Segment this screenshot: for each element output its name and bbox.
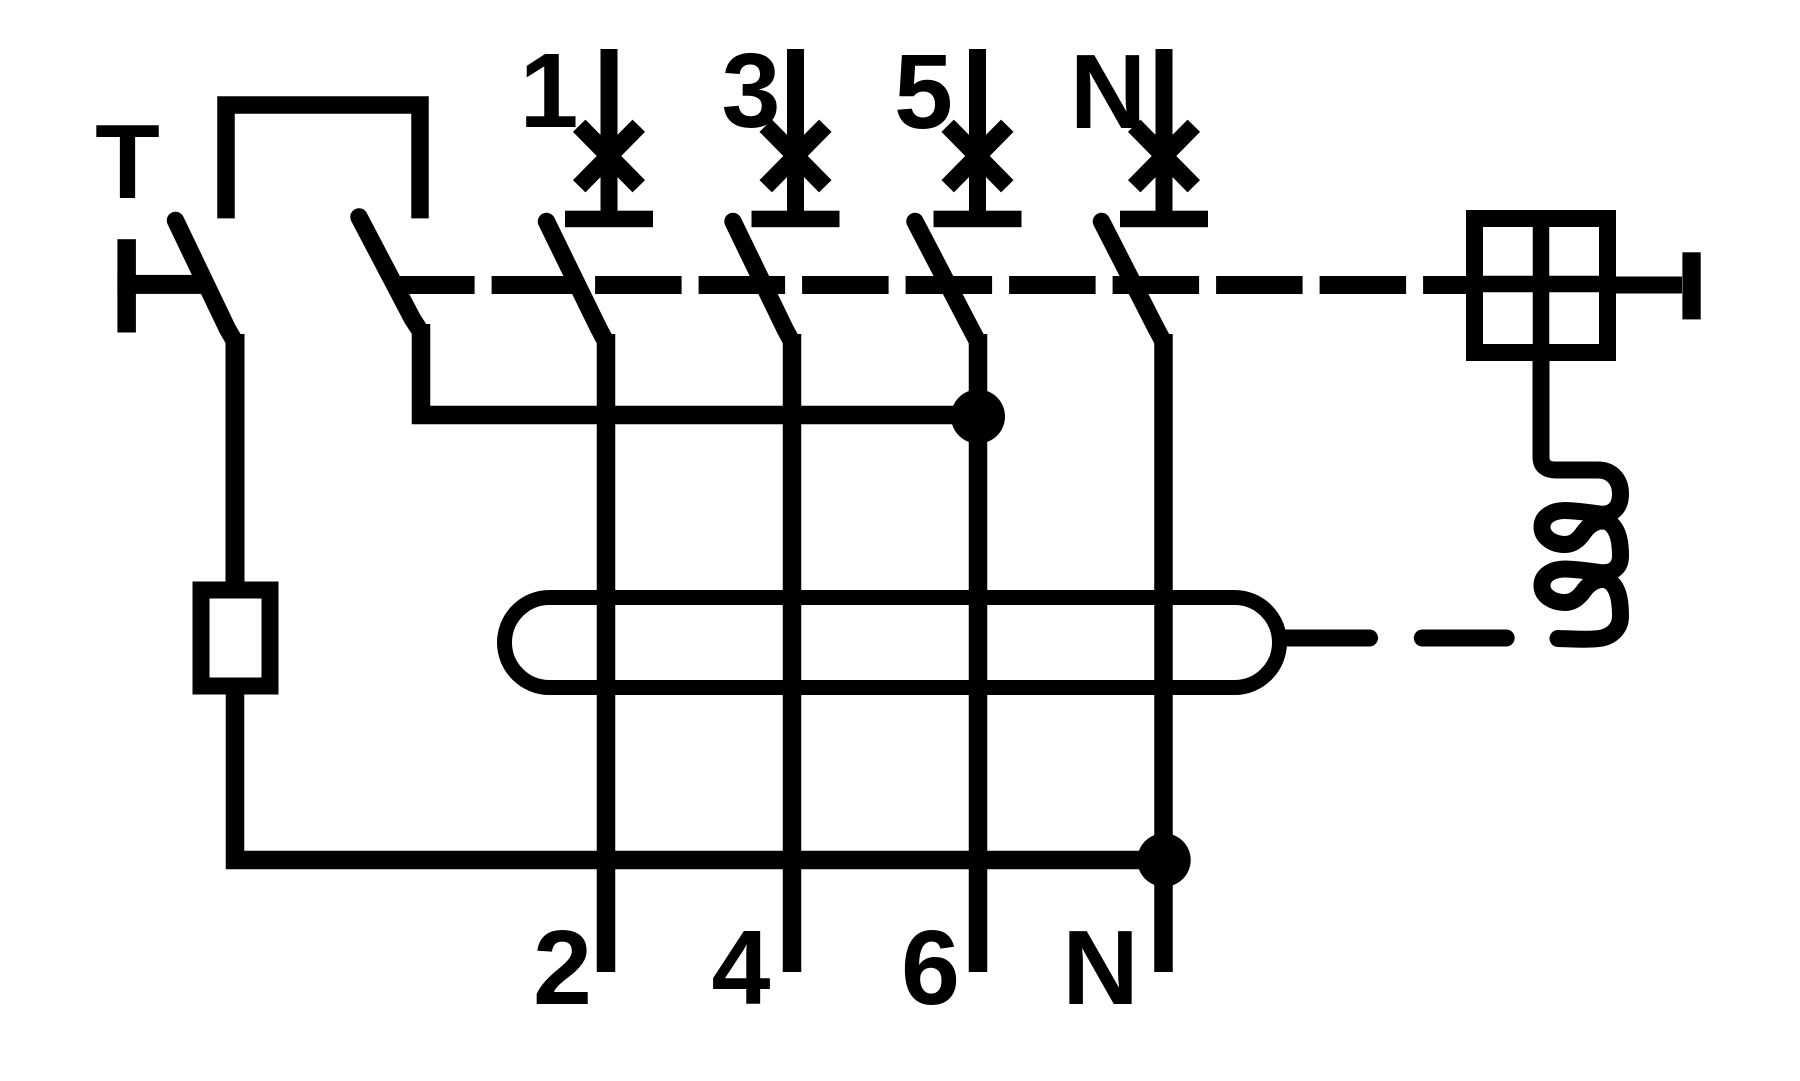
wire CT stub [1283, 630, 1370, 647]
switch pole 1 blade [547, 222, 607, 343]
svg-text:2: 2 [533, 909, 592, 1027]
pole 1 [520, 32, 653, 972]
mechanical linkage dashed line [390, 276, 1466, 294]
terminal N bar [1120, 211, 1208, 228]
output terminal bar [1682, 252, 1700, 319]
wire pole 5 vertical [969, 334, 988, 972]
trip relay box cross horizontal [1466, 276, 1616, 293]
node junction dot upper [951, 390, 1005, 444]
switch pole N blade [1102, 222, 1164, 343]
wire CT dash [1422, 630, 1506, 647]
wire test vertical to resistor [226, 334, 245, 588]
svg-text:6: 6 [901, 909, 960, 1027]
mechanical linkage bracket [226, 105, 420, 218]
switch pole 3 blade [733, 222, 792, 343]
svg-text:1: 1 [520, 32, 579, 150]
terminal 5 cross [948, 126, 1008, 187]
svg-text:4: 4 [712, 909, 771, 1027]
wire pole 1 vertical [597, 334, 616, 972]
wire relay to output terminal [1616, 277, 1682, 294]
switch linkage blade [359, 217, 421, 332]
pole 5 [894, 33, 1021, 972]
svg-text:T: T [95, 103, 160, 221]
terminal N cross [1134, 126, 1194, 187]
terminal 1 lead [601, 49, 618, 219]
coil secondary winding [1541, 358, 1621, 639]
terminal N lead [1156, 49, 1173, 219]
terminal 1 cross [579, 126, 639, 187]
terminal 3 bar [752, 211, 840, 228]
pole 3 [722, 32, 840, 972]
terminal 3 lead [787, 49, 804, 219]
resistor R (test resistor) [201, 590, 270, 686]
terminal 3 cross [766, 126, 826, 187]
terminal 5 bar [934, 211, 1022, 228]
test input terminal bar [117, 239, 135, 332]
pole N [1070, 33, 1208, 972]
trip relay box [1475, 219, 1608, 353]
terminal 1 bar [565, 211, 653, 228]
trip relay box cross vertical [1533, 210, 1550, 361]
wire pole 3 vertical [783, 334, 802, 972]
current transformer core [505, 598, 1280, 688]
wire pole N vertical [1154, 334, 1173, 972]
wire resistor to bottom rail [235, 694, 1164, 860]
svg-text:N: N [1062, 909, 1139, 1027]
wire test input horizontal [117, 275, 204, 294]
terminal 5 lead [969, 49, 986, 219]
wire linkage vertical and to node [421, 324, 978, 415]
switch test blade [176, 221, 236, 343]
switch pole 5 blade [915, 222, 978, 343]
node junction dot lower [1137, 833, 1190, 886]
